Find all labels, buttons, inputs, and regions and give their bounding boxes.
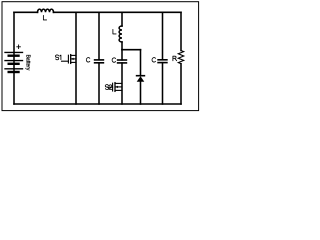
wire R column upper — [180, 12, 182, 50]
label S1 — [55, 55, 60, 60]
label R1 — [173, 56, 177, 61]
wire C3 column lower — [162, 63, 164, 104]
capacitor C2 — [118, 60, 127, 63]
wire R column lower — [180, 64, 182, 104]
wire top-left segment — [14, 11, 38, 13]
wire middle column junction to C2 — [121, 50, 123, 60]
capacitor C1 — [95, 60, 104, 63]
label L2 — [113, 29, 116, 34]
wire C1 column upper — [98, 12, 100, 60]
wire C3 column upper — [162, 12, 164, 59]
wire diode column upper — [140, 50, 142, 76]
transistor S2 — [108, 83, 123, 92]
battery polarity + — [17, 45, 21, 49]
label C3 — [152, 58, 155, 63]
wire S1 column — [75, 12, 77, 104]
inductor L2 — [119, 26, 122, 42]
label C2 — [112, 58, 115, 62]
wire middle column upper — [121, 12, 123, 26]
diode D1 — [137, 75, 145, 77]
wire C1 column lower — [98, 63, 100, 104]
resistor R1 — [178, 51, 183, 64]
label S2 — [105, 85, 112, 90]
label L1 — [43, 15, 46, 20]
battery B1 — [5, 52, 23, 72]
wire bottom rail — [14, 103, 181, 105]
label C1 — [86, 58, 89, 62]
transistor S1 — [62, 55, 77, 64]
capacitor C3 — [158, 60, 167, 63]
wire middle column to junction — [121, 42, 123, 50]
wire diode column lower — [140, 81, 142, 104]
wire middle column C2 to S2 — [121, 63, 123, 104]
wire left battery column — [13, 12, 15, 104]
svg-text:Battery: Battery — [24, 55, 30, 71]
inductor L1 — [38, 9, 54, 12]
wire junction to diode column — [122, 49, 141, 51]
wire top-right segment — [54, 11, 182, 13]
